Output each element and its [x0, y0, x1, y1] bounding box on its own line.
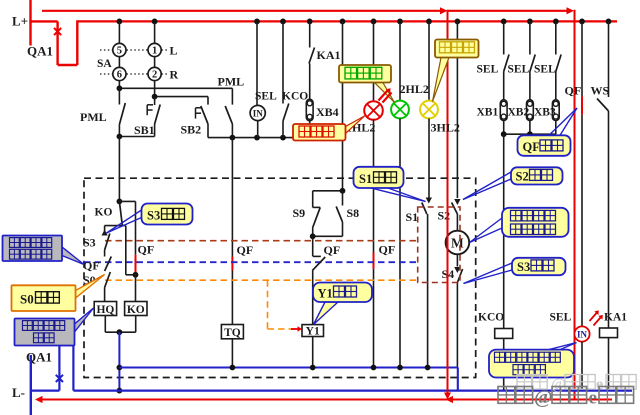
svg-text:TQ: TQ — [224, 327, 241, 339]
svg-text:KA1: KA1 — [604, 312, 627, 324]
svg-text:HQ: HQ — [96, 304, 114, 316]
svg-text:e: e — [589, 388, 597, 409]
contact WS — [591, 21, 610, 328]
contact KCO — [283, 21, 289, 137]
annotation green-lamp-off tail — [374, 82, 395, 103]
coil KA1 — [600, 312, 628, 391]
svg-text:SB1: SB1 — [134, 123, 155, 137]
svg-text:PML: PML — [218, 75, 245, 89]
contact KA1 — [309, 21, 341, 99]
wire riser to S9/S8 — [342, 21, 344, 190]
contact S0 (closed) — [83, 272, 110, 302]
svg-text:QF: QF — [523, 140, 541, 154]
contact S2 (closed) — [438, 21, 461, 222]
svg-text:R: R — [170, 68, 179, 82]
svg-text:SEL: SEL — [534, 64, 556, 76]
svg-text:S2: S2 — [516, 170, 529, 184]
wire SA-6 to PML contacts (y=88) — [117, 81, 233, 92]
motor M (spring charging) — [446, 214, 470, 254]
svg-text:KCO: KCO — [282, 91, 308, 103]
contact SEL #3 — [534, 21, 561, 99]
svg-text:QF: QF — [379, 243, 396, 257]
svg-text:S3: S3 — [517, 260, 530, 274]
svg-text:KA1: KA1 — [317, 48, 341, 62]
contact QF (KO branch, closed red) — [136, 243, 155, 273]
svg-text:S3: S3 — [147, 209, 160, 223]
contact S4 — [442, 254, 463, 367]
annotation aux contact changeover — [3, 236, 85, 265]
contact PML (second) — [218, 75, 245, 138]
svg-text:5: 5 — [117, 46, 122, 57]
svg-text:SA: SA — [97, 58, 112, 70]
wire red flow overlay at x=447 — [444, 205, 451, 400]
breaker QA1 (top, closed, red) — [29, 0, 77, 65]
annotation motor charging — [470, 208, 569, 243]
svg-text:S1: S1 — [406, 210, 419, 224]
link XB4 — [306, 99, 338, 137]
breaker QA1 (bottom, blue) — [31, 345, 74, 390]
svg-text:XB3: XB3 — [534, 107, 556, 119]
watermark (light copy) — [517, 375, 636, 394]
link XB2 — [508, 100, 534, 134]
svg-text:Y1: Y1 — [318, 287, 333, 301]
wire SB1/PML junction — [117, 134, 155, 140]
wire common bar y=137.6 — [208, 135, 310, 141]
pushbutton SB2 — [181, 97, 209, 138]
svg-text:3HL2: 3HL2 — [431, 121, 460, 135]
wire coil return bus (blue, y=367.5) — [119, 365, 457, 391]
blocked mark (red) — [379, 88, 392, 102]
svg-text:KCO: KCO — [478, 312, 504, 324]
svg-text:@: @ — [551, 376, 566, 393]
junction dots on L+ bus — [117, 19, 612, 25]
contact S8 — [310, 191, 359, 239]
svg-text:QF: QF — [138, 243, 155, 257]
coil HQ (closing coil) — [94, 302, 116, 317]
svg-text:SEL: SEL — [550, 312, 572, 324]
svg-text:Y1: Y1 — [306, 325, 320, 337]
state line S0 (orange dashed, y=280) — [105, 279, 418, 281]
coil KCO — [478, 134, 513, 390]
node L- — [12, 355, 31, 415]
svg-text:S1: S1 — [359, 172, 372, 186]
wire KO contact to KO coil — [126, 226, 139, 302]
state line to Y1 (orange dashed) — [268, 280, 303, 332]
annotation S3 connected — [464, 258, 566, 284]
svg-text:IN: IN — [253, 109, 264, 119]
svg-text:L: L — [170, 44, 178, 58]
svg-text:S3: S3 — [83, 236, 96, 250]
svg-text:XB4: XB4 — [316, 105, 339, 119]
switch SA contact circles 5/1/6/2 — [97, 21, 179, 81]
lamp 2HL2 (green) — [391, 21, 429, 367]
svg-text:QF: QF — [324, 243, 341, 257]
label SEL / KCO — [255, 91, 308, 103]
annotation S2 closed — [463, 167, 563, 199]
svg-text:2HL2: 2HL2 — [400, 82, 429, 96]
svg-text:SEL: SEL — [255, 91, 277, 103]
annotation yellow lamp off — [435, 40, 479, 58]
frame S1/S2/M dashed box (brown) — [418, 207, 460, 283]
coil TQ (trip coil) — [221, 325, 243, 368]
svg-text:KO: KO — [95, 207, 113, 219]
wire XB bar — [501, 131, 556, 137]
svg-text:QF: QF — [237, 243, 254, 257]
lamp 1HL2 (red) — [346, 21, 383, 134]
svg-text:PML: PML — [80, 110, 107, 124]
svg-text:WS: WS — [591, 84, 610, 98]
svg-text:IN: IN — [577, 330, 588, 340]
coil Y1 — [302, 325, 324, 368]
svg-text:XB2: XB2 — [508, 107, 530, 119]
svg-text:QF: QF — [565, 84, 582, 98]
contact QF (Y1 branch, open) — [312, 236, 340, 324]
contact S9 — [293, 188, 346, 236]
svg-text:6: 6 — [117, 70, 122, 81]
contact S3 (closed) — [83, 226, 110, 257]
annotation red-lamp-on tail — [346, 116, 365, 134]
wire red flow branch down at x=447 through S2/M column — [447, 10, 449, 393]
contact KO (self-hold) — [95, 201, 126, 225]
annotation S3 closed — [107, 204, 193, 234]
annotation S0 closed — [12, 275, 105, 312]
indicator lamp IN (SEL, top) — [250, 21, 265, 137]
state line QF (blue dashed, y=262) — [84, 261, 418, 263]
pushbutton SB1 — [134, 97, 160, 137]
watermark (main) — [498, 387, 634, 409]
wire to L- (blue) — [117, 332, 123, 393]
wire SA-2 to SB1/SB2 (y=97) — [152, 81, 208, 100]
svg-text:SEL: SEL — [477, 64, 499, 76]
svg-text:S0: S0 — [20, 292, 34, 307]
svg-text:S8: S8 — [347, 206, 360, 220]
contact PML (left) — [80, 88, 125, 136]
contact S1 (opened) — [406, 118, 433, 367]
link XB3 — [534, 100, 559, 134]
indicator lamp IN (breaker closed, lit) — [550, 312, 590, 391]
contact QF (left column aux) — [83, 257, 111, 273]
contact QF (1HL2 branch, closed red) — [374, 120, 396, 368]
node L+ label — [12, 14, 28, 29]
svg-text:2: 2 — [152, 70, 157, 81]
annotation S1 opened — [354, 167, 426, 202]
contact SEL #2 — [508, 21, 536, 99]
svg-text:L-: L- — [12, 385, 25, 400]
svg-text:M: M — [451, 236, 464, 251]
lamp 3HL2 (yellow) — [420, 21, 460, 134]
svg-text:QF: QF — [83, 259, 100, 273]
state line (brown dashed, y=241) — [105, 240, 418, 242]
svg-text:KO: KO — [127, 304, 145, 316]
contact SEL #1 — [477, 21, 510, 99]
wire red flow branch down at x=574 to L- return — [574, 10, 576, 400]
annotation yellow-lamp-off tail — [433, 58, 450, 102]
annotation closing coil de-energized — [15, 308, 94, 346]
annotation breaker-closed indicator — [489, 343, 577, 378]
svg-text:L+: L+ — [12, 14, 28, 29]
svg-text:QA1: QA1 — [27, 44, 53, 59]
label QA1 (top) — [27, 44, 53, 59]
wire HQ/KO join — [105, 316, 135, 336]
svg-text:SB2: SB2 — [181, 123, 202, 137]
label QA1 (bottom) — [26, 350, 52, 365]
svg-text:SEL: SEL — [508, 64, 530, 76]
annotation Y1 energized — [313, 283, 372, 325]
link XB1 — [477, 100, 508, 134]
wire L+ bus (red, y=21) — [77, 20, 617, 22]
coil KO — [125, 302, 147, 317]
wire PML/SB1 down to KO node — [117, 137, 123, 205]
annotation green lamp off — [339, 65, 391, 83]
contact QF (TQ branch, closed red) — [232, 138, 253, 325]
svg-text:@: @ — [534, 387, 553, 409]
annotation red lamp on — [293, 124, 346, 141]
light rays (lamp lit) — [590, 310, 603, 325]
wire L- bus (blue, y=390.6) — [73, 390, 632, 392]
annotation QF closed — [518, 108, 578, 156]
svg-text:S9: S9 — [293, 206, 306, 220]
contact QF (right, closed red) — [565, 21, 583, 326]
svg-text:1: 1 — [152, 46, 157, 57]
wire L+ supply flow line (red, top) — [42, 7, 574, 14]
wire KO-coil branch — [119, 201, 135, 254]
frame mechanism dashed box — [84, 178, 476, 377]
svg-text:XB1: XB1 — [477, 107, 499, 119]
wire L- return flow (red, y=399.5) — [35, 396, 612, 403]
